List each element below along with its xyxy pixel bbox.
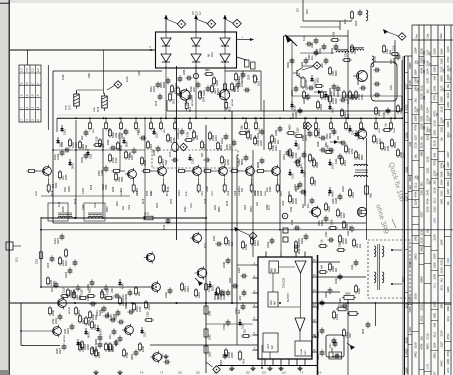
svg-text:470k: 470k xyxy=(52,318,55,324)
svg-text:3108: 3108 xyxy=(331,219,334,225)
label J1 xyxy=(17,256,19,262)
svg-text:2241: 2241 xyxy=(215,204,217,210)
resistor R22 xyxy=(65,248,68,258)
wire vertical x103 IF xyxy=(102,128,104,218)
svg-text:2218: 2218 xyxy=(156,100,158,106)
svg-text:10u: 10u xyxy=(299,163,303,168)
output transformer primary xyxy=(374,246,376,283)
svg-text:2215: 2215 xyxy=(420,304,424,310)
svg-text:BC548: BC548 xyxy=(69,307,71,314)
FM section label xyxy=(299,72,301,78)
svg-text:2208: 2208 xyxy=(91,184,93,190)
svg-text:2001: 2001 xyxy=(307,8,309,14)
svg-text:2151: 2151 xyxy=(205,242,207,248)
svg-text:3903: 3903 xyxy=(87,320,91,326)
svg-text:5603: 5603 xyxy=(414,253,418,259)
svg-text:3351: 3351 xyxy=(114,340,118,346)
svg-text:10u: 10u xyxy=(328,343,332,348)
svg-text:3353: 3353 xyxy=(209,351,212,357)
svg-text:100n: 100n xyxy=(334,278,338,284)
svg-text:3327: 3327 xyxy=(426,49,430,55)
svg-text:2241: 2241 xyxy=(426,189,430,195)
svg-text:1001: 1001 xyxy=(79,294,82,300)
svg-text:3351: 3351 xyxy=(209,310,212,316)
svg-text:7.5: 7.5 xyxy=(36,94,40,98)
wire vertical x206 xyxy=(205,125,207,373)
svg-text:1204: 1204 xyxy=(135,188,139,194)
wire vertical x305 xyxy=(304,130,306,206)
svg-text:2224: 2224 xyxy=(149,144,153,150)
label T8 xyxy=(192,99,194,106)
svg-text:3111: 3111 xyxy=(305,94,309,100)
T9 emitter resistor xyxy=(225,101,232,113)
svg-text:1.2: 1.2 xyxy=(30,68,34,72)
svg-text:3108: 3108 xyxy=(414,342,418,348)
svg-text:2k2: 2k2 xyxy=(314,333,317,338)
wire FM h3 xyxy=(300,26,340,28)
svg-text:2215: 2215 xyxy=(393,45,396,51)
svg-text:3327: 3327 xyxy=(327,190,331,196)
svg-text:3304: 3304 xyxy=(187,286,190,292)
svg-text:3126: 3126 xyxy=(62,74,65,80)
label near wire xyxy=(257,77,259,80)
svg-text:2303: 2303 xyxy=(48,262,50,268)
label T16 xyxy=(69,307,71,314)
svg-text:2208: 2208 xyxy=(404,132,408,138)
svg-text:6800: 6800 xyxy=(361,154,364,160)
wire vertical x145 IF xyxy=(144,118,146,218)
svg-text:1001: 1001 xyxy=(295,152,298,158)
svg-text:2224: 2224 xyxy=(426,60,430,66)
label output box xyxy=(403,277,405,282)
svg-text:2224: 2224 xyxy=(353,48,357,54)
svg-text:3351: 3351 xyxy=(88,72,91,78)
wire y345 segment mid xyxy=(150,344,258,346)
svg-text:3111: 3111 xyxy=(310,42,314,48)
connector diamond K4 xyxy=(114,81,122,89)
IC1 right pin stubs xyxy=(312,260,366,352)
svg-text:+: + xyxy=(331,338,333,342)
svg-text:1.2: 1.2 xyxy=(30,106,34,110)
svg-text:3126: 3126 xyxy=(433,187,437,193)
IC1 FM amp triangle xyxy=(295,261,306,273)
svg-text:1001: 1001 xyxy=(80,157,84,163)
svg-text:470k: 470k xyxy=(187,131,190,137)
pad P1 xyxy=(282,213,288,219)
svg-text:3903: 3903 xyxy=(130,354,134,360)
svg-text:3327: 3327 xyxy=(446,170,450,176)
parts list header top xyxy=(412,24,453,26)
decoupling resistors on supply bus xyxy=(89,117,397,133)
capacitor C22 xyxy=(73,259,78,266)
svg-text:3302: 3302 xyxy=(36,258,38,264)
svg-text:3111: 3111 xyxy=(290,206,293,212)
svg-text:3304: 3304 xyxy=(316,354,320,360)
svg-text:2218: 2218 xyxy=(420,237,424,243)
wire K8 lead xyxy=(206,362,213,367)
svg-text:3903: 3903 xyxy=(173,98,175,104)
svg-text:1001: 1001 xyxy=(439,198,443,204)
svg-text:2208: 2208 xyxy=(420,123,424,129)
svg-text:DET: DET xyxy=(267,344,270,349)
svg-text:DUAL: DUAL xyxy=(300,348,303,355)
svg-text:3504: 3504 xyxy=(345,293,351,296)
parts left column xyxy=(47,233,77,298)
svg-text:2224: 2224 xyxy=(290,90,294,96)
mid-right small parts xyxy=(288,141,362,254)
svg-text:2218: 2218 xyxy=(147,304,151,310)
wire vertical x348 upper xyxy=(347,30,349,118)
svg-text:3216: 3216 xyxy=(292,105,296,111)
svg-text:2306: 2306 xyxy=(105,184,108,190)
svg-text:2218: 2218 xyxy=(62,206,65,212)
varicap oval xyxy=(172,142,179,151)
svg-text:3903: 3903 xyxy=(439,302,443,308)
svg-text:3903: 3903 xyxy=(106,206,109,212)
resistor R62 xyxy=(198,90,205,102)
capacitor C21 xyxy=(48,255,54,268)
svg-text:2218: 2218 xyxy=(227,200,229,206)
svg-text:BC558: BC558 xyxy=(64,335,66,342)
scanner edge strip top xyxy=(9,0,453,3)
svg-text:3351: 3351 xyxy=(433,129,437,135)
svg-text:2333: 2333 xyxy=(439,66,443,72)
svg-text:4702: 4702 xyxy=(317,132,321,138)
svg-text:2207: 2207 xyxy=(446,188,450,194)
svg-text:3n9: 3n9 xyxy=(201,152,204,157)
speaker terminal a xyxy=(391,249,402,251)
svg-text:4702: 4702 xyxy=(351,148,354,154)
svg-text:3410: 3410 xyxy=(244,358,246,364)
svg-text:10u: 10u xyxy=(122,205,125,210)
svg-text:2218: 2218 xyxy=(420,229,424,235)
unit right pin upper xyxy=(237,37,255,41)
IC1 block AM MIX xyxy=(269,261,279,273)
svg-text:3126: 3126 xyxy=(240,323,244,329)
svg-text:2218: 2218 xyxy=(379,127,381,133)
svg-text:3n9: 3n9 xyxy=(433,323,437,328)
svg-text:2333: 2333 xyxy=(62,129,66,135)
svg-text:1204: 1204 xyxy=(138,70,141,76)
resistor R21 xyxy=(36,250,42,264)
T8 emitter resistor xyxy=(185,101,192,112)
svg-text:4702: 4702 xyxy=(404,104,408,110)
svg-text:2224: 2224 xyxy=(96,310,99,316)
transistor T17 xyxy=(50,325,61,337)
svg-text:2218: 2218 xyxy=(426,178,430,184)
svg-text:100n: 100n xyxy=(164,292,168,298)
transistor T21 xyxy=(144,252,155,264)
wire x375 drop xyxy=(375,303,377,326)
speaker terminal b xyxy=(391,283,402,285)
svg-text:2218: 2218 xyxy=(167,186,170,192)
svg-text:2224: 2224 xyxy=(64,272,68,278)
svg-text:4702: 4702 xyxy=(433,94,437,100)
wire IC top link xyxy=(280,231,282,252)
svg-text:3351: 3351 xyxy=(324,292,328,298)
svg-text:3304: 3304 xyxy=(160,82,163,88)
resistor R31 xyxy=(142,214,155,220)
svg-text:3111: 3111 xyxy=(297,184,300,190)
svg-text:5603: 5603 xyxy=(161,353,164,359)
svg-text:2207: 2207 xyxy=(117,200,119,206)
table feed stub xyxy=(27,50,29,65)
IC1 block AM DET xyxy=(263,333,278,352)
wire vertical x41 xyxy=(40,217,42,287)
svg-text:Wert: Wert xyxy=(440,33,443,39)
svg-text:10u: 10u xyxy=(321,238,324,243)
IF strip small parts xyxy=(54,124,390,169)
svg-text:4702: 4702 xyxy=(433,110,437,116)
svg-text:6800: 6800 xyxy=(408,62,412,68)
svg-text:4.7: 4.7 xyxy=(19,106,23,110)
coil shield box 2 xyxy=(84,203,105,221)
wire FM top xyxy=(303,21,352,30)
svg-text:3903: 3903 xyxy=(318,220,321,226)
lamp wire K3 xyxy=(225,19,233,23)
output transformer secondary xyxy=(382,246,384,283)
svg-text:5603: 5603 xyxy=(78,343,82,349)
bottom-left small parts xyxy=(70,279,220,360)
svg-text:3126: 3126 xyxy=(302,171,306,177)
lamp connector diamond K2 xyxy=(207,20,215,28)
electrolytic cap xyxy=(331,338,337,347)
transistor T6 xyxy=(243,165,254,177)
svg-text:1001: 1001 xyxy=(177,190,181,196)
wire y345 segment left xyxy=(21,345,60,347)
svg-text:2207: 2207 xyxy=(446,151,450,157)
svg-text:3111: 3111 xyxy=(446,131,450,137)
svg-text:2218: 2218 xyxy=(227,159,230,165)
svg-text:2218: 2218 xyxy=(426,333,430,339)
transistor T22 xyxy=(195,266,207,279)
FM rf transistor small xyxy=(293,68,302,78)
svg-text:2208: 2208 xyxy=(433,48,437,54)
svg-text:3903: 3903 xyxy=(219,145,223,151)
svg-text:1204: 1204 xyxy=(215,135,218,141)
IC1 internal wire 2 xyxy=(272,273,274,292)
resistor R11 (hatched) xyxy=(74,91,80,109)
resistor chain R53 xyxy=(204,344,212,357)
scan artifact bottom-left corner xyxy=(0,370,9,375)
svg-text:10u: 10u xyxy=(446,201,450,206)
svg-text:2413: 2413 xyxy=(221,359,223,365)
parts list outer left rule xyxy=(402,56,404,375)
svg-text:3n9: 3n9 xyxy=(241,187,244,192)
svg-text:5402: 5402 xyxy=(286,62,290,68)
svg-text:3216: 3216 xyxy=(52,190,54,196)
svg-text:2241: 2241 xyxy=(197,292,201,298)
svg-text:2306: 2306 xyxy=(231,352,234,358)
svg-text:10u: 10u xyxy=(359,243,362,248)
svg-text:2207: 2207 xyxy=(390,58,393,64)
svg-text:100n: 100n xyxy=(228,190,230,196)
wire vertical x176 xyxy=(176,66,178,240)
svg-text:1001: 1001 xyxy=(446,257,450,263)
svg-text:OSC: OSC xyxy=(271,300,273,305)
lamp pad circle xyxy=(193,66,198,79)
svg-text:2k2: 2k2 xyxy=(302,203,305,208)
svg-text:2k2: 2k2 xyxy=(420,336,424,341)
indicator unit box xyxy=(156,32,237,68)
svg-text:2k2: 2k2 xyxy=(238,295,242,300)
svg-text:3n9: 3n9 xyxy=(321,264,324,269)
svg-text:2207: 2207 xyxy=(446,161,450,167)
resistor R41 xyxy=(364,184,372,198)
electrolytic label box xyxy=(329,352,342,359)
footer text fragments xyxy=(140,373,322,375)
wire vertical x75 xyxy=(75,120,77,218)
svg-text:2k2: 2k2 xyxy=(254,134,257,139)
svg-text:3327: 3327 xyxy=(343,212,346,218)
svg-text:3907: 3907 xyxy=(205,70,211,72)
extra label band xyxy=(51,182,345,196)
svg-text:470k: 470k xyxy=(382,112,386,118)
svg-text:10u: 10u xyxy=(439,137,443,142)
svg-text:3304: 3304 xyxy=(433,301,437,307)
svg-text:2207: 2207 xyxy=(350,129,354,135)
svg-text:5402: 5402 xyxy=(439,360,443,366)
svg-text:3505: 3505 xyxy=(338,306,344,308)
svg-text:10u: 10u xyxy=(420,136,424,141)
svg-text:2241: 2241 xyxy=(282,154,286,160)
IC1 bottom pin stubs xyxy=(265,359,305,366)
svg-text:2333: 2333 xyxy=(269,186,272,192)
IC1 block AM OSC xyxy=(268,292,278,307)
svg-text:2207: 2207 xyxy=(420,211,424,217)
svg-text:3126: 3126 xyxy=(433,140,437,146)
svg-text:2333: 2333 xyxy=(98,170,101,176)
IC1 label SUPPLY xyxy=(287,292,290,302)
svg-text:2306: 2306 xyxy=(137,129,140,135)
junction dots extra xyxy=(20,117,403,369)
svg-text:2306: 2306 xyxy=(107,139,110,145)
lamp voltage note xyxy=(193,11,202,15)
lamp wire K1 xyxy=(166,19,177,24)
svg-text:3351: 3351 xyxy=(420,189,424,195)
svg-text:10u: 10u xyxy=(50,287,54,292)
svg-text:3327: 3327 xyxy=(414,134,418,140)
wire lamp col1 drop xyxy=(165,66,167,118)
svg-text:10u: 10u xyxy=(446,84,450,89)
svg-text:3108: 3108 xyxy=(98,106,100,112)
IF transformer S1 coil xyxy=(354,164,368,177)
connector diamond K7 xyxy=(304,122,312,130)
wire K9 lead xyxy=(302,67,313,71)
svg-text:2241: 2241 xyxy=(433,273,437,279)
IC1 block DUAL DET xyxy=(295,341,312,356)
lamp feed arrows xyxy=(164,15,227,33)
svg-text:100n: 100n xyxy=(111,346,114,352)
parts list column rules xyxy=(405,25,452,375)
svg-text:3903: 3903 xyxy=(157,202,159,208)
svg-text:3304: 3304 xyxy=(414,47,418,53)
wire vertical x232 xyxy=(231,111,233,303)
wire vertical x21 xyxy=(20,303,22,346)
dashed output box xyxy=(368,240,410,298)
wire vertical x264 xyxy=(263,100,265,150)
svg-text:1.2: 1.2 xyxy=(36,68,40,72)
wire shield box verticals xyxy=(167,96,402,111)
svg-text:3141: 3141 xyxy=(144,214,150,216)
voltage table column lines xyxy=(25,65,36,122)
svg-text:2218: 2218 xyxy=(433,120,437,126)
svg-text:100n: 100n xyxy=(122,294,125,300)
svg-text:2207: 2207 xyxy=(149,190,153,196)
wire vertical x253 xyxy=(252,150,254,257)
svg-text:5402: 5402 xyxy=(408,296,412,302)
svg-text:3126: 3126 xyxy=(59,201,61,207)
svg-text:2333: 2333 xyxy=(67,186,71,192)
svg-text:2102: 2102 xyxy=(335,314,339,320)
svg-text:2102: 2102 xyxy=(184,206,187,212)
svg-text:5402: 5402 xyxy=(61,141,64,147)
svg-text:10u: 10u xyxy=(414,175,418,180)
svg-text:3111: 3111 xyxy=(433,331,437,337)
svg-text:5603: 5603 xyxy=(426,343,430,349)
svg-text:3111: 3111 xyxy=(164,128,166,133)
indicator unit type label xyxy=(208,51,214,57)
svg-text:3107: 3107 xyxy=(70,104,72,110)
wire R11 link xyxy=(77,90,104,94)
svg-text:3111: 3111 xyxy=(303,35,306,41)
svg-text:470k: 470k xyxy=(120,283,124,289)
svg-text:5402: 5402 xyxy=(229,277,232,283)
svg-text:1204: 1204 xyxy=(118,133,121,139)
FM can caps xyxy=(373,68,393,98)
voltage table frame xyxy=(19,65,41,122)
svg-text:3111: 3111 xyxy=(414,182,418,188)
svg-text:3111: 3111 xyxy=(446,315,450,321)
svg-text:1001: 1001 xyxy=(98,329,102,335)
unit right component R91 xyxy=(249,62,256,80)
svg-text:2306: 2306 xyxy=(439,171,443,177)
note near K8 xyxy=(229,368,232,372)
diode D12 xyxy=(330,140,342,144)
svg-text:2241: 2241 xyxy=(426,77,430,83)
svg-text:2306: 2306 xyxy=(446,121,450,127)
svg-text:3903: 3903 xyxy=(70,163,74,169)
svg-text:Pos.: Pos. xyxy=(416,33,419,38)
svg-text:3108: 3108 xyxy=(81,289,84,295)
IC1 internal wire 4 xyxy=(299,331,301,341)
svg-text:1001: 1001 xyxy=(433,217,437,223)
transistor T3 xyxy=(155,165,166,177)
svg-text:1001: 1001 xyxy=(53,280,56,286)
IF transformer core L1 xyxy=(58,213,72,215)
svg-text:2306: 2306 xyxy=(298,238,301,244)
svg-text:3922: 3922 xyxy=(249,74,251,80)
transistor T13 xyxy=(355,128,367,141)
T9 bias parts xyxy=(211,81,241,94)
svg-text:470k: 470k xyxy=(420,343,424,349)
transistor T20 xyxy=(150,351,161,363)
wire FM v1 xyxy=(291,40,293,110)
svg-text:3111: 3111 xyxy=(165,159,168,165)
transistor T16 xyxy=(55,297,66,309)
svg-text:3216: 3216 xyxy=(408,80,412,86)
svg-text:1204: 1204 xyxy=(439,239,443,245)
extra band labels 2 xyxy=(62,203,305,212)
svg-text:5603: 5603 xyxy=(408,175,412,181)
svg-text:3126: 3126 xyxy=(446,65,450,71)
wire FM v2 xyxy=(401,60,403,111)
svg-text:3327: 3327 xyxy=(439,341,443,347)
wire ground bus y368 xyxy=(218,365,318,367)
svg-text:2224: 2224 xyxy=(414,106,418,112)
svg-text:2208: 2208 xyxy=(257,190,260,196)
svg-text:1204: 1204 xyxy=(54,238,57,244)
